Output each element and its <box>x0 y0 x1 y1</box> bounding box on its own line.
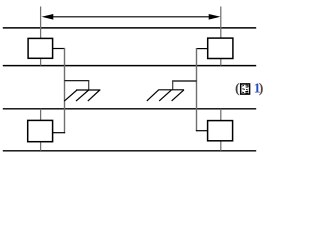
wire left vertical runner <box>64 48 66 133</box>
extension line right (vertical reference at x=221) <box>220 7 222 151</box>
wire right vertical runner <box>196 48 198 131</box>
wire left ground branch (horizontal) <box>65 80 90 82</box>
component box U3 (bottom-left) <box>28 120 53 141</box>
wire bus line 3 <box>3 108 256 110</box>
svg-text:(: ( <box>235 81 240 96</box>
svg-text:): ) <box>259 81 264 96</box>
wire U1 right lead (horizontal) <box>53 48 66 50</box>
component box U4 (bottom-right) <box>208 121 233 141</box>
component box U2 (top-right) <box>208 38 233 58</box>
label caption (图 1) <box>235 81 264 96</box>
wire U2 left lead (horizontal) <box>196 48 208 50</box>
wire bus line 2 <box>3 65 256 67</box>
wire U4 left lead (horizontal) <box>196 130 208 132</box>
wire U3 right lead (horizontal) <box>53 132 66 134</box>
component box U1 (top-left) <box>28 38 52 58</box>
ground symbol right <box>147 90 184 101</box>
extension line left (vertical reference at x=41) <box>40 7 42 151</box>
wire bus line 4 (bottom rail) <box>3 150 256 152</box>
ground symbol left <box>64 90 100 101</box>
wire left ground stub (vertical) <box>88 81 90 90</box>
wire bus line 1 (top rail) <box>3 27 256 29</box>
wire right ground stub (vertical) <box>172 81 174 90</box>
wire right ground branch (horizontal) <box>172 80 196 82</box>
dimension arrow (double-headed, between verticals) <box>42 14 221 20</box>
